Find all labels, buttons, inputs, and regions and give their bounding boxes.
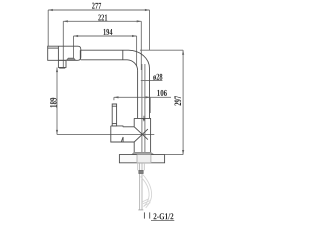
dimension 221 — [63, 20, 141, 22]
dimension 106 — [114, 96, 171, 98]
riser right edge — [149, 69, 151, 119]
shank collar below flange — [138, 163, 145, 171]
handle base block — [111, 126, 134, 142]
spout head pipe joint — [79, 50, 81, 60]
curved hose — [143, 175, 152, 208]
svg-text:2-G1/2: 2-G1/2 — [153, 211, 174, 221]
base flange — [119, 155, 164, 163]
faucet outline group — [48, 46, 165, 163]
diameter 28 leader — [141, 80, 163, 82]
spout head outline — [48, 46, 81, 60]
elbow outer arc — [129, 50, 150, 68]
spout head cap double line — [48, 47, 59, 49]
body top center mark — [143, 116, 145, 121]
flange inner section — [137, 155, 151, 163]
dimension lines group — [48, 10, 183, 155]
handle lever — [112, 104, 116, 126]
boss cone X — [134, 127, 148, 140]
sprayer dome — [67, 58, 76, 60]
svg-text:194: 194 — [103, 27, 113, 37]
riser inner tube lines — [142, 64, 145, 155]
arrowheads — [48, 9, 184, 155]
centerline through handle boss — [57, 133, 154, 135]
svg-text:297: 297 — [173, 95, 183, 105]
handle boss top — [123, 126, 134, 128]
svg-text:106: 106 — [157, 88, 168, 98]
dimension 194 — [74, 35, 137, 37]
body — [134, 118, 150, 152]
leader ticks for 2-G1/2 — [144, 212, 149, 218]
svg-text:277: 277 — [92, 1, 102, 11]
spout pipe bottom — [81, 59, 127, 61]
riser left edge — [137, 71, 139, 119]
spout pipe top — [81, 49, 129, 51]
label underline — [151, 219, 174, 221]
dimension 189 vertical — [56, 68, 58, 135]
dimension 277 — [48, 9, 149, 11]
spout head cap joint — [57, 46, 59, 60]
straight hose below flange — [138, 163, 143, 210]
handle base wedge — [121, 137, 123, 142]
body foot flare — [132, 152, 154, 154]
elbow inner arc — [127, 60, 138, 71]
svg-text:221: 221 — [98, 13, 108, 23]
hose nut — [139, 170, 143, 173]
dimension texts — [49, 1, 183, 222]
dimension 297 vertical — [182, 50, 184, 154]
hose end fitting lines — [143, 201, 150, 204]
svg-text:ø28: ø28 — [153, 72, 163, 82]
aerator under head — [58, 60, 66, 67]
svg-text:189: 189 — [49, 97, 59, 108]
